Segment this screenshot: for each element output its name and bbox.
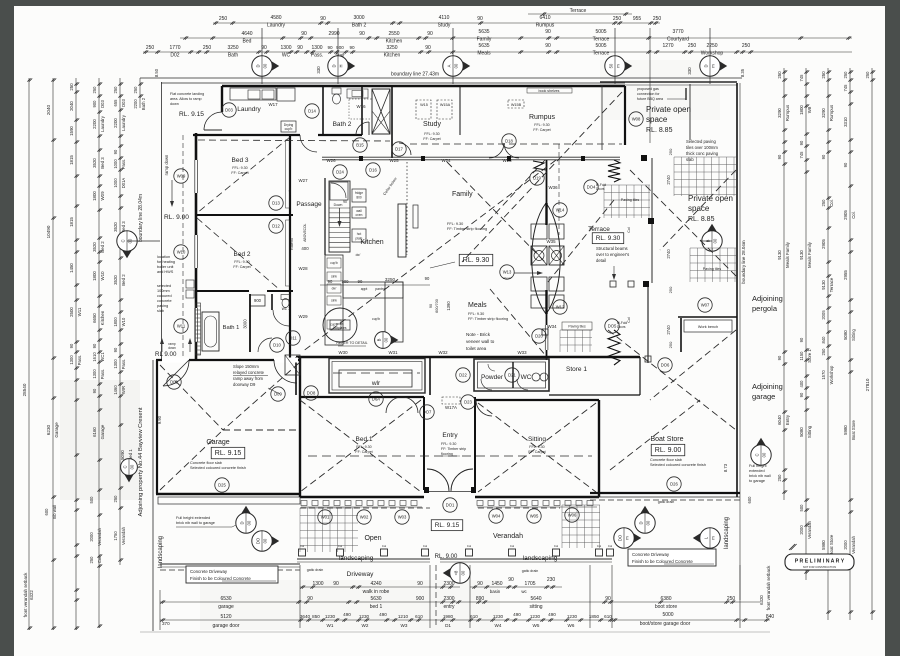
svg-text:3000: 3000 (353, 15, 364, 21)
svg-text:Verandah: Verandah (851, 535, 856, 554)
svg-text:250: 250 (777, 71, 782, 79)
svg-text:W2: W2 (362, 623, 369, 628)
svg-text:3520: 3520 (92, 158, 97, 168)
svg-text:Bed: Bed (243, 39, 252, 45)
svg-text:pergola: pergola (752, 304, 778, 313)
svg-text:Col: Col (627, 227, 631, 233)
svg-text:Garage: Garage (100, 424, 105, 439)
svg-text:over to engineer's: over to engineer's (596, 252, 629, 257)
svg-text:W6: W6 (568, 623, 575, 628)
svg-text:D: D (639, 521, 644, 524)
svg-text:boundary line 27.43m: boundary line 27.43m (391, 72, 439, 78)
svg-text:Boat Store: Boat Store (851, 419, 856, 439)
svg-text:Rumpus: Rumpus (529, 114, 556, 121)
svg-text:RL. 9.15: RL. 9.15 (215, 450, 242, 457)
svg-text:Meals Family: Meals Family (807, 241, 812, 268)
svg-text:W3: W3 (401, 623, 408, 628)
svg-text:Pass.: Pass. (77, 355, 82, 365)
svg-text:1300: 1300 (311, 45, 322, 51)
svg-text:Bath 1: Bath 1 (223, 325, 240, 331)
svg-text:W33: W33 (517, 350, 527, 355)
svg-text:FFL: 9.30: FFL: 9.30 (447, 222, 463, 226)
svg-text:Sitting: Sitting (807, 425, 812, 438)
svg-text:3250: 3250 (227, 45, 238, 51)
svg-text:Col.: Col. (829, 199, 834, 206)
svg-text:D09: D09 (274, 392, 282, 397)
svg-text:RL. 8.85: RL. 8.85 (688, 216, 715, 223)
svg-text:Open: Open (364, 535, 381, 542)
svg-text:walk in robe: walk in robe (363, 589, 390, 595)
svg-text:Study: Study (423, 121, 441, 128)
svg-text:oven: oven (356, 213, 363, 217)
svg-text:C: C (123, 465, 128, 468)
svg-text:selected: selected (157, 284, 171, 288)
svg-text:B: B (377, 338, 382, 341)
svg-text:Col.: Col. (851, 211, 856, 218)
svg-text:2905: 2905 (843, 210, 848, 220)
svg-text:90: 90 (328, 279, 333, 284)
svg-text:1750: 1750 (113, 531, 118, 541)
svg-text:Terrace: Terrace (593, 37, 610, 43)
svg-text:W8: W8 (807, 106, 812, 113)
svg-text:5005: 5005 (595, 43, 606, 49)
svg-text:W16: W16 (356, 104, 366, 109)
svg-text:D10: D10 (273, 343, 281, 348)
svg-text:W28: W28 (298, 266, 308, 271)
svg-text:Bed 2: Bed 2 (100, 241, 105, 253)
svg-text:Terrace: Terrace (588, 226, 610, 233)
svg-text:2740: 2740 (666, 325, 671, 335)
svg-text:above: above (503, 276, 512, 280)
svg-text:1815: 1815 (69, 217, 74, 227)
svg-text:extended: extended (749, 469, 765, 473)
svg-text:W14: W14 (556, 208, 565, 213)
svg-text:Laundry: Laundry (121, 114, 126, 131)
svg-text:boot store: boot store (655, 604, 677, 610)
svg-text:Boat Store: Boat Store (650, 436, 683, 443)
svg-text:900: 900 (254, 298, 262, 303)
svg-text:1300: 1300 (69, 355, 74, 365)
svg-text:Entry: Entry (442, 432, 458, 439)
svg-text:Selected coloured concrete fin: Selected coloured concrete finish (190, 466, 246, 470)
svg-text:boot/store garage door: boot/store garage door (640, 621, 691, 627)
svg-text:Laundry: Laundry (267, 23, 286, 29)
svg-text:2300: 2300 (443, 581, 454, 587)
svg-text:1800: 1800 (799, 105, 804, 115)
svg-text:250: 250 (865, 71, 870, 79)
svg-text:NOT FOR CONSTRUCTION: NOT FOR CONSTRUCTION (803, 565, 836, 569)
svg-text:D13: D13 (272, 201, 280, 206)
svg-text:250: 250 (613, 16, 622, 22)
svg-text:2500: 2500 (69, 307, 74, 317)
svg-text:Verandah: Verandah (121, 526, 126, 545)
svg-text:Col: Col (597, 544, 602, 548)
svg-text:flooring: flooring (441, 452, 453, 456)
svg-text:connection for: connection for (637, 92, 660, 96)
svg-text:4640: 4640 (241, 31, 252, 37)
svg-text:W5: W5 (533, 623, 540, 628)
svg-text:FF: Timber strip flooring: FF: Timber strip flooring (468, 317, 508, 321)
svg-text:W05: W05 (530, 514, 539, 519)
svg-text:boundary line 28.04m: boundary line 28.04m (138, 194, 144, 242)
svg-text:coloured: coloured (157, 294, 172, 298)
svg-text:6322: 6322 (29, 590, 34, 600)
svg-text:Bath: Bath (228, 53, 239, 59)
svg-text:thick conc paving: thick conc paving (686, 151, 719, 156)
svg-text:D01A: D01A (121, 178, 126, 189)
svg-text:90: 90 (297, 45, 303, 51)
svg-text:1570: 1570 (821, 370, 826, 380)
svg-text:W36: W36 (548, 185, 558, 190)
svg-text:D: D (256, 64, 261, 67)
svg-text:down: down (170, 102, 179, 106)
svg-text:W31: W31 (388, 350, 398, 355)
svg-text:Col: Col (627, 317, 631, 323)
svg-text:330: 330 (687, 67, 692, 75)
svg-text:toilet area: toilet area (466, 346, 487, 351)
svg-text:9130: 9130 (799, 250, 804, 260)
svg-text:Private open: Private open (646, 105, 691, 114)
svg-text:and HWS: and HWS (157, 270, 174, 274)
svg-text:745: 745 (843, 84, 848, 92)
svg-text:Bath 2: Bath 2 (352, 23, 367, 29)
svg-text:27810: 27810 (865, 378, 870, 391)
svg-text:6040: 6040 (777, 415, 782, 425)
svg-text:Doors: Doors (617, 325, 626, 329)
svg-text:D25: D25 (218, 483, 226, 488)
svg-text:Meals Family: Meals Family (785, 241, 790, 268)
svg-text:6410: 6410 (539, 15, 550, 21)
svg-text:5635: 5635 (478, 43, 489, 49)
svg-text:pantry: pantry (375, 287, 385, 291)
svg-text:detail: detail (596, 258, 606, 263)
svg-text:90: 90 (545, 29, 551, 35)
svg-text:3520: 3520 (113, 275, 118, 285)
svg-text:1460: 1460 (113, 385, 118, 395)
svg-text:250: 250 (777, 474, 782, 482)
svg-text:1610: 1610 (92, 352, 97, 362)
svg-text:250: 250 (843, 71, 848, 79)
svg-text:Col: Col (608, 544, 613, 548)
svg-text:W03: W03 (398, 515, 407, 520)
svg-text:proposed gas: proposed gas (637, 87, 659, 91)
svg-text:Bed 2: Bed 2 (121, 274, 126, 286)
svg-text:90: 90 (359, 31, 365, 37)
svg-text:90: 90 (777, 355, 782, 360)
svg-text:garage: garage (752, 392, 775, 401)
svg-text:wlr: wlr (371, 380, 381, 387)
svg-text:90: 90 (358, 279, 363, 284)
svg-text:2040: 2040 (69, 101, 74, 111)
svg-text:wc: wc (521, 589, 527, 594)
svg-text:28540: 28540 (22, 383, 27, 396)
svg-text:1000: 1000 (113, 159, 118, 169)
svg-text:RL 9.00: RL 9.00 (155, 351, 177, 358)
svg-text:90: 90 (113, 149, 118, 154)
svg-text:Meals: Meals (468, 302, 487, 309)
svg-text:Terrace: Terrace (570, 8, 587, 14)
svg-text:90: 90 (320, 16, 326, 22)
svg-text:1230: 1230 (359, 614, 370, 619)
svg-text:RL. 9.30: RL. 9.30 (596, 235, 621, 242)
svg-text:2300: 2300 (443, 596, 454, 602)
svg-text:m: m (711, 64, 716, 68)
svg-text:500: 500 (89, 496, 94, 504)
svg-text:WIR: WIR (121, 386, 126, 394)
svg-text:hot: hot (357, 232, 362, 236)
svg-text:1300: 1300 (92, 369, 97, 379)
svg-text:FFL: 9.30: FFL: 9.30 (232, 166, 247, 170)
svg-text:Private open: Private open (688, 194, 733, 203)
svg-text:600/700: 600/700 (435, 299, 439, 313)
svg-text:10490: 10490 (46, 225, 51, 238)
svg-text:D12: D12 (272, 224, 280, 229)
svg-text:1770: 1770 (169, 45, 180, 51)
svg-text:5120: 5120 (220, 614, 231, 620)
svg-text:90: 90 (799, 337, 804, 342)
svg-text:1300: 1300 (113, 359, 118, 369)
svg-text:W30: W30 (338, 350, 348, 355)
svg-text:D03: D03 (121, 98, 126, 106)
svg-text:Down: Down (334, 203, 343, 207)
svg-text:1230: 1230 (325, 614, 336, 619)
svg-text:90: 90 (508, 577, 514, 583)
svg-text:dw': dw' (356, 253, 361, 257)
svg-text:D03: D03 (100, 99, 105, 107)
svg-text:1800: 1800 (113, 317, 118, 327)
svg-text:Pass.: Pass. (121, 159, 126, 169)
svg-text:Full height: Full height (749, 464, 767, 468)
svg-text:front verandah setback: front verandah setback (766, 565, 771, 610)
svg-text:5005: 5005 (595, 29, 606, 35)
svg-text:Family: Family (452, 191, 473, 198)
svg-text:Terrace: Terrace (593, 51, 610, 57)
svg-text:book shelves: book shelves (539, 89, 560, 93)
svg-text:DO: DO (256, 537, 261, 544)
svg-text:gatic drain: gatic drain (658, 500, 675, 504)
svg-text:m: m (711, 536, 716, 540)
svg-text:brick nib wall to garage: brick nib wall to garage (176, 521, 215, 525)
svg-text:robe: robe (288, 187, 292, 195)
svg-text:cup'b: cup'b (372, 317, 380, 321)
svg-text:2740: 2740 (666, 249, 671, 259)
svg-text:2740: 2740 (666, 175, 671, 185)
svg-text:90: 90 (843, 162, 848, 167)
svg-text:concrete: concrete (157, 299, 172, 303)
svg-text:2005: 2005 (821, 310, 826, 320)
svg-text:D16: D16 (369, 168, 377, 173)
svg-text:FF: Timber strip: FF: Timber strip (441, 447, 466, 451)
svg-text:DO7: DO7 (423, 410, 432, 415)
svg-text:paving: paving (157, 304, 168, 308)
svg-text:Selected coloured concrete fin: Selected coloured concrete finish (650, 463, 706, 467)
svg-text:3290: 3290 (777, 108, 782, 118)
svg-text:3640: 3640 (300, 614, 311, 619)
svg-text:90: 90 (349, 45, 355, 50)
svg-text:garage: garage (218, 604, 234, 610)
svg-text:250: 250 (69, 83, 74, 91)
svg-text:P R E L I M I N A R Y: P R E L I M I N A R Y (795, 559, 845, 565)
svg-text:600: 600 (747, 496, 752, 504)
svg-text:1590: 1590 (69, 126, 74, 136)
svg-text:<8: <8 (454, 570, 459, 575)
svg-text:Bath 2: Bath 2 (333, 121, 352, 128)
svg-text:Col: Col (382, 544, 387, 548)
svg-text:Paving tiles: Paving tiles (568, 325, 586, 329)
svg-text:m: m (625, 536, 630, 540)
svg-text:5080: 5080 (843, 330, 848, 340)
svg-text:FFL: 9.30: FFL: 9.30 (441, 442, 456, 446)
svg-text:W09: W09 (177, 174, 186, 179)
svg-text:D11: D11 (289, 336, 297, 341)
svg-text:Terrace: Terrace (829, 277, 834, 292)
svg-text:2200: 2200 (113, 118, 118, 128)
svg-text:Col: Col (300, 544, 305, 548)
svg-text:250: 250 (203, 45, 212, 51)
svg-text:5080: 5080 (799, 427, 804, 437)
svg-text:FFL: 9.30: FFL: 9.30 (424, 132, 439, 136)
svg-text:Work bench: Work bench (698, 325, 718, 329)
svg-text:W4: W4 (495, 623, 502, 628)
svg-text:Doors: Doors (596, 187, 605, 191)
svg-text:W23: W23 (502, 158, 512, 163)
svg-text:dw': dw' (332, 287, 337, 291)
svg-text:90: 90 (777, 154, 782, 159)
svg-text:3520: 3520 (92, 242, 97, 252)
svg-text:RL. 9.00: RL. 9.00 (655, 447, 682, 454)
svg-text:A: A (447, 64, 452, 67)
svg-text:1270: 1270 (662, 43, 673, 49)
svg-text:W10: W10 (100, 271, 105, 281)
svg-text:m: m (616, 64, 621, 68)
svg-text:space: space (688, 204, 710, 213)
svg-text:00: 00 (263, 63, 268, 68)
svg-text:4110: 4110 (439, 15, 450, 21)
svg-text:Pass.: Pass. (100, 369, 105, 379)
svg-text:00: 00 (263, 538, 268, 543)
svg-text:9.90: 9.90 (157, 415, 162, 424)
svg-text:to garage: to garage (749, 479, 765, 483)
svg-text:W29: W29 (298, 314, 308, 319)
svg-text:1230: 1230 (530, 614, 541, 619)
svg-text:H: H (339, 64, 344, 67)
svg-text:DO1: DO1 (446, 503, 455, 508)
svg-text:00: 00 (130, 464, 135, 469)
svg-text:D26: D26 (670, 482, 678, 487)
svg-text:250: 250 (821, 199, 826, 207)
svg-text:W27: W27 (298, 178, 308, 183)
svg-text:1800: 1800 (92, 191, 97, 201)
svg-text:490: 490 (343, 612, 351, 617)
svg-text:sitting: sitting (529, 604, 542, 610)
svg-text:Garage: Garage (54, 422, 59, 438)
svg-text:490: 490 (379, 612, 387, 617)
svg-text:C: C (755, 453, 760, 456)
svg-text:W04: W04 (492, 514, 501, 519)
svg-text:W01: W01 (321, 515, 330, 520)
svg-text:400: 400 (301, 246, 309, 251)
svg-text:6530: 6530 (220, 596, 231, 602)
svg-text:Kitchen: Kitchen (360, 239, 383, 246)
svg-text:nib wall: nib wall (52, 505, 57, 519)
svg-text:Store 1: Store 1 (807, 349, 812, 363)
svg-text:250: 250 (821, 348, 826, 356)
svg-text:FFL: 9.30: FFL: 9.30 (529, 445, 544, 449)
svg-text:WC: WC (521, 374, 532, 381)
svg-text:sink: sink (331, 299, 337, 303)
svg-text:W34: W34 (547, 324, 557, 329)
svg-text:745: 745 (799, 151, 804, 159)
svg-text:8.35: 8.35 (740, 68, 745, 77)
svg-text:W15B: W15B (511, 103, 522, 107)
svg-text:DO: DO (618, 534, 623, 541)
svg-text:610: 610 (470, 614, 478, 619)
svg-text:90: 90 (92, 343, 97, 348)
svg-text:ramp down: ramp down (164, 154, 169, 175)
svg-text:5000: 5000 (662, 612, 673, 618)
svg-text:4240: 4240 (370, 581, 381, 587)
svg-text:Verandah: Verandah (493, 533, 523, 540)
svg-text:D22: D22 (459, 373, 467, 378)
svg-text:FFL: 9.30: FFL: 9.30 (468, 312, 484, 316)
svg-text:landscaping: landscaping (158, 536, 164, 568)
svg-text:Bed 3: Bed 3 (100, 157, 105, 169)
svg-text:W11: W11 (77, 307, 82, 316)
svg-text:1300: 1300 (312, 581, 323, 587)
svg-text:FF: Carpet: FF: Carpet (233, 265, 250, 269)
svg-text:1000: 1000 (113, 178, 118, 188)
svg-text:1980: 1980 (443, 614, 454, 619)
svg-text:8.73: 8.73 (723, 463, 728, 472)
svg-text:900: 900 (92, 100, 97, 108)
svg-text:cup'b: cup'b (285, 127, 293, 131)
svg-text:Verandah: Verandah (807, 520, 812, 539)
svg-text:W26: W26 (326, 158, 336, 163)
svg-text:down: down (168, 346, 176, 350)
svg-text:3310: 3310 (843, 117, 848, 127)
svg-text:00: 00 (247, 520, 252, 525)
svg-text:Powder: Powder (481, 374, 504, 381)
svg-text:Store 1: Store 1 (566, 366, 587, 373)
svg-text:745: 745 (799, 74, 804, 82)
svg-text:Col: Col (467, 544, 472, 548)
svg-text:330: 330 (316, 66, 321, 74)
svg-text:Slope 150mm: Slope 150mm (233, 364, 259, 369)
svg-text:1300: 1300 (280, 45, 291, 51)
svg-text:Flat concrete landing: Flat concrete landing (170, 92, 204, 96)
svg-text:Concrete Driveway: Concrete Driveway (190, 569, 228, 574)
svg-text:100mm: 100mm (157, 289, 170, 293)
svg-text:Adjoining: Adjoining (752, 294, 783, 303)
svg-text:250: 250 (688, 43, 697, 49)
svg-text:250: 250 (146, 45, 155, 51)
svg-text:relayed concrete: relayed concrete (233, 370, 265, 375)
svg-text:boundary line 28.04m: boundary line 28.04m (741, 240, 746, 284)
svg-text:Laundry: Laundry (100, 115, 105, 132)
svg-text:1450: 1450 (69, 263, 74, 273)
svg-text:1450: 1450 (491, 581, 502, 587)
svg-text:90: 90 (343, 200, 347, 204)
svg-text:Concrete floor slab: Concrete floor slab (650, 458, 682, 462)
svg-text:6650: 6650 (92, 313, 97, 323)
svg-text:90: 90 (429, 304, 433, 308)
svg-text:Rumpus: Rumpus (829, 104, 834, 121)
svg-text:Col: Col (554, 544, 559, 548)
svg-text:4580: 4580 (270, 15, 281, 21)
svg-text:890: 890 (476, 596, 485, 602)
svg-text:Finish to be Coloured Concrete: Finish to be Coloured Concrete (190, 576, 251, 581)
svg-text:400: 400 (799, 380, 804, 388)
